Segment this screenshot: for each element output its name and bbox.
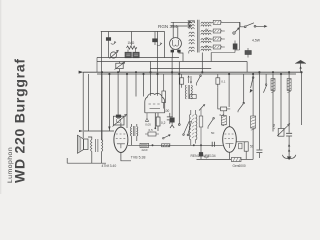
wire main bus lower: [97, 73, 296, 75]
wire left long vertical: [101, 32, 103, 141]
output tube V3 REN1104: [223, 116, 237, 152]
wire rectifier plate loop: [157, 32, 164, 58]
cluster near osc: [199, 105, 205, 111]
wire grid feed horizontal: [84, 130, 114, 132]
resistor R12 0,5: [145, 132, 159, 136]
pickup arrow: [163, 134, 171, 139]
wire anode to R10: [236, 142, 246, 149]
wire heater tap: [150, 62, 152, 75]
svg-text:0,2: 0,2: [161, 121, 166, 125]
switch S7 diagonal: [208, 117, 214, 128]
fuse block F2: [213, 29, 225, 33]
wire comb v8: [157, 74, 159, 96]
svg-text:1MΩ: 1MΩ: [128, 41, 135, 45]
potentiometer P2: [277, 74, 289, 136]
capacitor C2 block: [125, 50, 139, 58]
resistor R10 50: [244, 142, 248, 160]
resistor R8 0,2M: [218, 88, 230, 111]
svg-text:50: 50: [211, 131, 215, 135]
wire comb v3: [117, 74, 119, 116]
core: [198, 20, 200, 53]
wire transformer to bus: [202, 22, 239, 72]
resistor R16 hatched: [287, 79, 291, 93]
pilot lamp L1: [110, 50, 119, 58]
wire mid v1: [170, 58, 175, 129]
capacitor C11 to ground: [286, 72, 292, 150]
capacitor C6 coupling box: [140, 143, 149, 147]
resistor R1 1MOhm: [127, 32, 137, 50]
svg-text:4,5W: 4,5W: [252, 39, 261, 43]
switch S9 arrow on HT line: [250, 77, 254, 93]
loudspeaker LS: [78, 135, 89, 153]
svg-text:100: 100: [164, 109, 170, 113]
wire mid v3: [228, 74, 230, 107]
svg-text:WD 220 Burggraf: WD 220 Burggraf: [12, 58, 28, 183]
primary winding rows: [189, 22, 195, 29]
interstage coil T2: [130, 124, 138, 145]
wire comb v4: [126, 74, 128, 128]
node socket pins: [171, 50, 174, 53]
capacitor C5 near tube: [167, 113, 173, 124]
resistor R3 cathode: [156, 113, 160, 131]
output tube V2 TVB: [114, 123, 131, 161]
fuse block F1: [213, 20, 240, 24]
wire top frame horizontal: [101, 31, 157, 33]
coil T5 right winding: [195, 110, 197, 144]
wire left v2: [88, 74, 90, 131]
resistor R2 fuse block: [115, 62, 125, 73]
capacitor C7 block 50: [245, 48, 251, 58]
wire heater rail lower: [97, 61, 247, 63]
resistor R6: [216, 74, 220, 88]
svg-text:50: 50: [250, 145, 254, 149]
switch S3 diagonal: [196, 75, 201, 86]
wire comb v7: [150, 74, 152, 96]
wire right long v: [252, 74, 254, 159]
variable capacitor C4: [113, 114, 127, 126]
ground E1: [282, 144, 295, 160]
svg-text:Gen6000: Gen6000: [233, 164, 246, 168]
power transformer T1: [189, 20, 213, 54]
comb of vertical wires below bus: [102, 74, 158, 140]
wire rail corner drop: [246, 62, 248, 73]
capacitor C13 series in line: [212, 142, 214, 147]
capacitor C3 electrolytic 4,5V: [153, 32, 162, 46]
right column v2 wire: [272, 74, 274, 132]
wire HT rail: [150, 68, 211, 70]
capacitor C1 top left: [106, 32, 115, 58]
svg-text:0,5: 0,5: [149, 128, 154, 132]
resistor R9 Gen6000: [231, 158, 241, 162]
wire heater rail upper: [97, 57, 179, 59]
wire rectifier anode arrows: [171, 21, 191, 28]
fuse block F4: [213, 45, 225, 49]
detector tube V1: [145, 93, 165, 129]
wire AF coupling: [128, 144, 223, 146]
switch S8 diagonal: [263, 74, 267, 93]
secondary winding rows: [201, 22, 211, 23]
wire right edge v: [301, 72, 303, 125]
node T5 junction: [193, 144, 195, 146]
wire mid v2: [178, 62, 180, 126]
wire comb v2: [108, 74, 110, 131]
oscillator coil T4: [185, 85, 196, 99]
svg-text:4V: 4V: [205, 28, 209, 32]
left section verticals: [79, 72, 114, 138]
mid-left RF block resistor R7: [162, 74, 166, 109]
capacitor C9 electrolytic: [199, 144, 203, 159]
wire comb v1: [101, 74, 103, 140]
heater rails: [97, 58, 247, 73]
output transformer T3: [88, 137, 103, 155]
row leads to blocks: [211, 22, 213, 47]
node junctions on bus: [101, 71, 303, 75]
capacitor C10: [256, 150, 262, 153]
resistor R4 hatched: [162, 144, 171, 147]
wire comb v6: [143, 74, 145, 97]
electrolytic C8: [170, 118, 175, 123]
resistor R15 vertical: [199, 109, 203, 146]
mains plug P1: [233, 28, 239, 34]
coupling line: [128, 144, 223, 146]
wire cathode rail right: [197, 152, 254, 159]
svg-text:4μF: 4μF: [204, 155, 210, 159]
right column v1: [256, 72, 262, 158]
capacitor C12 blob: [233, 41, 238, 53]
svg-text:47Nf 3.40: 47Nf 3.40: [102, 164, 117, 168]
resistor R5: [180, 74, 184, 88]
node bus start arrow: [79, 71, 84, 74]
svg-text:TVB 5.38: TVB 5.38: [131, 155, 146, 159]
coil T5 core hatch: [192, 115, 194, 139]
switch S4 arms: [183, 121, 192, 136]
resistor R11 hatched: [271, 79, 275, 93]
svg-text:RGN 354: RGN 354: [158, 24, 178, 29]
svg-text:4V: 4V: [205, 44, 209, 48]
wire main bus upper: [83, 71, 302, 73]
rectifier tube U1 RGN354: [170, 38, 183, 62]
wire rail drop left: [96, 58, 98, 73]
node arrow on grid feed: [79, 130, 84, 132]
svg-text:1,5k: 1,5k: [272, 123, 276, 129]
switch S6 diagonal right: [238, 74, 245, 112]
wire rectifier top lead: [173, 22, 178, 38]
wire left v1: [82, 72, 84, 138]
svg-text:0,05: 0,05: [145, 123, 151, 127]
mains switch S1: [240, 22, 267, 27]
wire vertical right of top frame: [156, 32, 158, 75]
coil T5 left winding: [189, 110, 191, 145]
svg-text:0,1: 0,1: [221, 80, 226, 84]
resistor R14 hatched: [221, 111, 226, 126]
svg-text:22nF: 22nF: [142, 148, 149, 152]
wire comb v5: [135, 74, 137, 97]
resistor R13 hatched: [251, 116, 256, 130]
antenna A1: [295, 60, 306, 72]
main bus wires: [79, 71, 302, 74]
switch S2 arrows: [188, 76, 192, 84]
svg-text:4V: 4V: [205, 36, 209, 40]
fuse block F3: [213, 37, 225, 41]
svg-text:0,2: 0,2: [220, 113, 225, 117]
wire speaker bottom rail: [67, 155, 106, 163]
